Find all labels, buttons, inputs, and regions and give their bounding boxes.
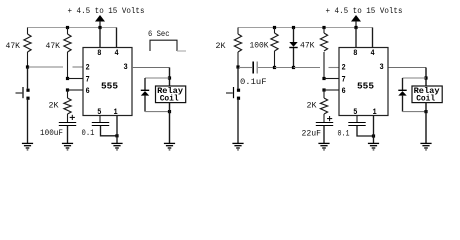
left wire diode branch top — [145, 77, 170, 79]
wire pin 5 to C2 — [99, 116, 101, 123]
svg-text:+ 4.5 to 15 Volts: + 4.5 to 15 Volts — [326, 7, 403, 16]
svg-text:3: 3 — [124, 63, 128, 72]
wire node B down to switch — [237, 67, 239, 89]
svg-text:Coil: Coil — [416, 93, 435, 103]
wire pin 7 — [68, 78, 84, 80]
capacitor C3 0.1uF coupling — [253, 62, 257, 74]
ground under pin 1 right — [368, 143, 379, 150]
wire switch S2 to ground — [237, 99, 239, 144]
left node diode junction bottom — [168, 110, 171, 113]
power supply arrow left — [95, 15, 105, 28]
plus polarity C4 — [327, 116, 332, 121]
wire C1 to ground — [67, 126, 69, 143]
node A trigger junction — [26, 65, 29, 68]
svg-text:2: 2 — [342, 64, 346, 73]
right relay coil box — [412, 86, 442, 103]
svg-text:+ 4.5 to 15 Volts: + 4.5 to 15 Volts — [68, 7, 145, 16]
right node diode junction top — [424, 76, 427, 79]
ground under C4 — [318, 143, 329, 150]
resistor R4 2K — [234, 34, 241, 52]
capacitor C2 0.1uF — [92, 123, 109, 126]
wire R1 to node A — [27, 52, 29, 67]
pushbutton S1 — [16, 87, 30, 100]
wire C5 to pin1 net right — [357, 126, 374, 136]
wire node B to C3 — [239, 67, 252, 69]
left wire diode cathode lead — [144, 96, 146, 112]
svg-text:Coil: Coil — [160, 93, 179, 103]
resistor R5 100K — [271, 33, 278, 51]
wire pin6 node to R7 — [323, 90, 325, 98]
node D2-pin2 junction — [292, 66, 295, 69]
svg-text:47K: 47K — [46, 42, 61, 51]
ground under pin 1 — [111, 143, 122, 150]
node pin7 junction — [66, 77, 69, 80]
node rail-R2 junction — [66, 26, 69, 29]
right wire relay to ground — [425, 103, 427, 143]
wire R4 to node B — [237, 52, 239, 67]
node rail-R5 junction — [273, 26, 276, 29]
op-amp U1 555 timer IC left — [83, 48, 132, 118]
svg-text:8: 8 — [97, 49, 101, 58]
right wire pin3 down to relay — [425, 68, 427, 87]
node pin1-C5 junction right — [372, 134, 375, 137]
wire 100K node to diode node — [275, 67, 294, 69]
wire R6 to pin7 node — [323, 52, 325, 79]
right diode D (flyback) — [398, 90, 406, 95]
wire pin6 node to R3 — [67, 90, 69, 98]
wire V+ rail right — [238, 27, 373, 29]
svg-text:0.1: 0.1 — [82, 129, 95, 138]
svg-text:7: 7 — [342, 75, 346, 84]
svg-text:555: 555 — [101, 81, 118, 92]
pushbutton S2 — [226, 87, 240, 100]
svg-text:4: 4 — [371, 49, 375, 58]
wire pin 3 output right — [389, 67, 427, 69]
resistor R2 47K — [64, 34, 71, 52]
wire pin 1 to ground right — [373, 116, 375, 144]
svg-text:2K: 2K — [49, 102, 59, 111]
waveform pulse symbol — [150, 40, 177, 51]
left wire diode branch bottom — [145, 111, 170, 113]
wire R2 to pin7 node — [67, 52, 69, 79]
left wire relay to ground — [169, 103, 171, 143]
wire pin2 net (left part) — [294, 67, 321, 69]
ground under switch S1 — [22, 143, 33, 150]
wire rail to R4 — [237, 28, 239, 35]
wire rail to R6 — [323, 28, 325, 34]
plus polarity C1 — [70, 115, 75, 120]
svg-text:8: 8 — [353, 49, 357, 58]
svg-text:555: 555 — [357, 81, 374, 92]
wire pin 3 output — [132, 67, 170, 69]
wire pin 8 to rail — [99, 28, 101, 48]
svg-text:2K: 2K — [216, 42, 226, 51]
left ground under relay — [164, 143, 175, 150]
wire C3 to 100K node — [258, 67, 275, 69]
wire rail to R2 — [67, 28, 69, 35]
wire rail to R1 — [27, 28, 29, 35]
node rail-pin8 junction — [98, 26, 101, 29]
wire pin 4 to rail right — [372, 28, 374, 48]
wire pin 1 to ground — [116, 116, 118, 144]
diode D2 — [289, 42, 297, 48]
resistor R1 47K — [24, 34, 31, 52]
right wire diode cathode lead — [402, 96, 404, 112]
capacitor C5 0.1uF — [348, 123, 365, 126]
wire V+ rail left — [28, 27, 117, 29]
svg-text:47K: 47K — [6, 42, 21, 51]
wire rail to diode D2 — [293, 28, 295, 43]
svg-text:47K: 47K — [300, 42, 315, 51]
svg-text:100K: 100K — [250, 42, 269, 51]
wire to pin 2 (right part) — [329, 67, 340, 69]
wire R7 to C4 — [323, 114, 325, 123]
capacitor C4 22uF — [316, 123, 333, 126]
svg-text:4: 4 — [115, 49, 119, 58]
op-amp U2 555 timer IC right — [339, 48, 388, 118]
wire to pin2 (right part) — [73, 66, 84, 68]
node pin6 junction right — [322, 88, 325, 91]
svg-text:0.1: 0.1 — [338, 129, 350, 138]
left wire pin3 down to relay — [169, 68, 171, 87]
svg-text:7: 7 — [86, 75, 90, 84]
wire node A down to switch — [27, 67, 29, 89]
wire pin 5 to C5 — [356, 116, 358, 123]
right ground under relay — [420, 143, 431, 150]
wire rail to R5 — [274, 28, 276, 34]
right wire diode branch bottom — [403, 111, 427, 113]
right node diode junction bottom — [424, 110, 427, 113]
node pin1-C2 junction — [115, 134, 118, 137]
node R5-C3 junction — [273, 66, 276, 69]
resistor R6 47K — [320, 33, 327, 51]
wire pin 7 right — [324, 78, 339, 80]
right wire diode branch top — [403, 77, 427, 79]
wire R5 to node — [274, 51, 276, 68]
wire D2 to pin2 net — [293, 48, 295, 68]
node pin6 junction — [66, 88, 69, 91]
ground under C1 — [62, 143, 73, 150]
node B trigger input — [236, 65, 239, 68]
svg-text:22uF: 22uF — [302, 129, 322, 138]
node rail-pin8 junction right — [354, 26, 357, 29]
wire C4 to ground — [323, 126, 325, 143]
left node diode junction top — [168, 76, 171, 79]
wire pin 6 — [68, 89, 84, 91]
svg-text:2: 2 — [86, 64, 90, 73]
resistor R7 2K — [320, 98, 327, 114]
left relay coil box — [156, 86, 186, 103]
ground under switch S2 — [232, 143, 243, 150]
node rail-D2 junction — [292, 26, 295, 29]
svg-text:6: 6 — [342, 87, 346, 96]
svg-text:6 Sec: 6 Sec — [148, 30, 170, 39]
wire pin 8 to rail right — [355, 28, 357, 48]
svg-text:2K: 2K — [307, 102, 317, 111]
left diode D (flyback) — [141, 90, 149, 95]
node rail-R6 junction — [322, 26, 325, 29]
wire R3 to C1 — [67, 114, 69, 123]
svg-text:100uF: 100uF — [40, 129, 63, 138]
svg-text:3: 3 — [380, 63, 384, 72]
wire node A to pin2 (left part) — [29, 66, 64, 68]
power supply arrow right — [351, 15, 361, 28]
left wire diode anode lead — [144, 78, 146, 90]
wire C2 to pin1 net — [101, 126, 118, 136]
resistor R3 2K — [64, 98, 71, 114]
svg-text:6: 6 — [86, 87, 90, 96]
waveform baseline stub — [177, 50, 186, 52]
wire switch to ground — [27, 99, 29, 144]
capacitor C1 100uF — [59, 123, 76, 126]
node pin7 junction right — [322, 77, 325, 80]
svg-text:0.1uF: 0.1uF — [240, 78, 267, 87]
wire pin 6 right — [324, 89, 339, 91]
right wire diode anode lead — [402, 78, 404, 90]
wire pin 4 to rail — [116, 28, 118, 48]
